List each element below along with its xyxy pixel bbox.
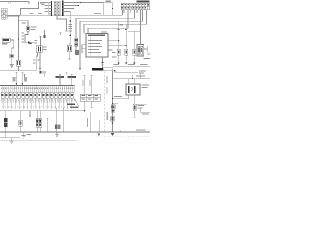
label text — [114, 96, 122, 97]
M1 right wires — [108, 41, 126, 50]
node — [132, 78, 133, 79]
component D2 — [133, 104, 136, 110]
ground symbol g2 — [22, 132, 26, 138]
faint lower border right — [97, 136, 150, 138]
wire R3 to ground — [11, 58, 13, 65]
wire S1 outputs — [36, 52, 41, 71]
label text — [138, 105, 145, 106]
label text — [136, 75, 145, 76]
wire short drop — [99, 120, 101, 132]
node mark — [44, 35, 46, 38]
big block drop wires — [3, 98, 71, 109]
fuse F2 — [27, 26, 30, 31]
label text wire colours — [21, 33, 24, 34]
label text under A1 — [2, 43, 8, 44]
wire B1 down — [18, 66, 20, 71]
inline connector on S1 wire — [40, 71, 42, 73]
nodes — [118, 40, 119, 41]
M1 left wires — [80, 41, 86, 68]
wedge connector — [75, 98, 79, 106]
component on drop lower — [111, 110, 114, 113]
short stub — [29, 111, 31, 116]
wire row outputs right — [63, 3, 104, 12]
node — [112, 8, 113, 9]
sensor G2 — [117, 49, 120, 55]
wire pin runs L3 — [80, 10, 143, 41]
T2 bottom wires — [85, 101, 93, 111]
label text — [112, 52, 115, 53]
wire left vertical V1 — [18, 16, 20, 60]
wire pin runs L2 — [76, 10, 135, 38]
wire drop with tick — [47, 118, 49, 132]
M1 header text — [88, 35, 105, 37]
label text right of bar — [114, 71, 117, 72]
label text — [106, 1, 112, 2]
fuse box G1 grid — [1, 8, 7, 19]
T1 pin stubs below — [124, 10, 137, 13]
node on V1 — [18, 38, 19, 39]
ground dots — [117, 63, 119, 65]
wire relay feed — [140, 10, 142, 44]
drop tick texture — [2, 106, 74, 108]
ground mark — [97, 133, 100, 136]
fuse box G1 dark cells — [1, 11, 6, 19]
tick mark — [59, 33, 61, 35]
switch S1 feed — [39, 36, 42, 46]
wire lower run — [115, 70, 138, 72]
sensor grounds — [119, 55, 135, 63]
label text column — [68, 24, 72, 32]
diode D1 — [101, 62, 103, 64]
small table T2 feed labels — [82, 80, 83, 86]
small table T2 feeds — [84, 75, 93, 94]
black bar component — [92, 68, 103, 71]
sensor G4 — [133, 49, 136, 55]
label text — [142, 113, 149, 114]
wire stub above node — [132, 75, 134, 79]
ground — [9, 65, 13, 67]
tick mark — [66, 72, 68, 74]
wire K0 bottom drop — [57, 16, 68, 31]
control module M1 — [86, 34, 108, 58]
T1 cell text — [122, 4, 149, 8]
wire F2 down jog — [25, 31, 28, 43]
relay K1 — [137, 45, 144, 57]
ground triangle main — [111, 133, 114, 136]
dark mark under column — [75, 50, 79, 55]
wire short stub — [44, 30, 46, 38]
wire connector pair on feed — [25, 42, 37, 44]
relay K2 — [126, 84, 140, 95]
wire drop to ground bus — [90, 113, 92, 133]
bar extension outline — [103, 68, 113, 71]
wire bar to bottom vertical — [112, 71, 114, 132]
label text — [27, 134, 31, 135]
wire drops with arrows — [119, 22, 127, 30]
K2 output left — [113, 95, 129, 99]
sensor feeds — [119, 31, 135, 50]
label text — [35, 40, 37, 41]
node — [84, 110, 85, 111]
wire A1 to R3 — [10, 40, 14, 54]
feed labels — [13, 77, 16, 82]
fuse labels — [55, 2, 60, 15]
wire pin runs L4 — [84, 10, 147, 34]
T2 cell texts — [81, 95, 98, 100]
ground symbol g3 — [55, 132, 59, 136]
big block pin number texture — [1, 87, 74, 89]
big block cell texts — [2, 94, 74, 96]
label text beside vertical — [106, 76, 107, 84]
K2 output down — [134, 95, 136, 104]
big block under-cell text texture — [1, 99, 75, 101]
wire short right — [128, 30, 140, 32]
drop resistor chain R5 — [5, 111, 7, 118]
wire tick — [23, 74, 25, 78]
wire column down — [75, 46, 77, 50]
wedge label — [67, 103, 75, 105]
ground bus — [0, 131, 150, 133]
label text — [33, 60, 35, 61]
label text — [40, 2, 45, 3]
wire branch to fuse F2 — [19, 21, 29, 26]
label text left of K0 — [45, 2, 48, 12]
label texts above bus — [114, 64, 148, 65]
wire pin to bus L1 — [122, 10, 124, 16]
switch B1 — [16, 60, 21, 66]
switch S1 — [36, 46, 42, 53]
tick on bus — [119, 130, 121, 132]
label text — [139, 70, 146, 71]
label text vertical — [87, 118, 88, 127]
antenna box sub-circuit — [104, 3, 113, 16]
connector X6 — [67, 45, 72, 51]
wire K1 right lower — [144, 58, 150, 60]
resistor R3 — [10, 54, 14, 58]
label text — [120, 25, 123, 26]
component label box A1 — [2, 38, 10, 42]
label text on bus — [30, 13, 34, 14]
long drops — [56, 108, 63, 132]
bus wire right mid — [113, 66, 150, 68]
divider wire left — [0, 70, 36, 72]
wire junction run — [0, 110, 85, 112]
big block feeds with arrows — [15, 72, 23, 83]
relay K1 arm — [144, 46, 150, 54]
connector table T1 — [121, 3, 150, 9]
wire top border — [0, 2, 29, 5]
lower bus wire — [113, 78, 151, 80]
small table T2 — [80, 94, 100, 101]
arrow ticks — [118, 29, 128, 31]
node dots — [80, 2, 81, 3]
ground branch left — [0, 132, 20, 138]
wire riser to top — [21, 2, 39, 16]
label text — [43, 47, 47, 48]
label text vertical — [107, 112, 108, 120]
marks near bus — [55, 125, 58, 130]
drop component R6 — [20, 111, 22, 132]
wire right lateral — [135, 103, 147, 105]
fuse row 1 — [54, 1, 60, 15]
relay K2 feeds — [129, 79, 135, 84]
M1 pin row texts — [88, 40, 102, 53]
wire M1 bottom pin — [102, 57, 104, 62]
ground symbol g1 — [10, 138, 14, 144]
wire main bus L1 — [8, 14, 123, 16]
components on main drop — [113, 103, 119, 105]
tall feeds — [59, 74, 73, 86]
faint lower border left — [0, 140, 77, 142]
connector table T1 label — [137, 1, 150, 3]
wire tick — [43, 74, 45, 78]
big block bus — [0, 85, 75, 87]
relay block K0 left bus bar — [51, 1, 53, 16]
left component column boxes — [75, 38, 78, 42]
label text above module — [101, 31, 107, 32]
corner box top right — [141, 108, 150, 113]
big block pins — [2, 86, 74, 92]
label text — [22, 22, 27, 23]
wire stubs left of K0 — [49, 3, 52, 15]
sensor G3 — [125, 49, 128, 55]
twin solenoids Y1 Y2 — [38, 111, 41, 118]
wire fused feed drop — [68, 12, 71, 46]
wire G1 to bus — [7, 15, 20, 17]
relay block K0 right bus bar — [62, 1, 64, 17]
node — [70, 20, 72, 22]
wire drop to lower bus — [139, 74, 141, 79]
inline connector X5 — [28, 42, 30, 44]
tall feed labels — [56, 76, 65, 78]
K2 label text — [141, 85, 149, 86]
wire run L5 — [88, 13, 128, 34]
section divider dashed — [104, 72, 106, 133]
wire X6 down — [68, 52, 70, 60]
big block cells — [1, 92, 74, 98]
label text above bus right — [136, 129, 146, 130]
